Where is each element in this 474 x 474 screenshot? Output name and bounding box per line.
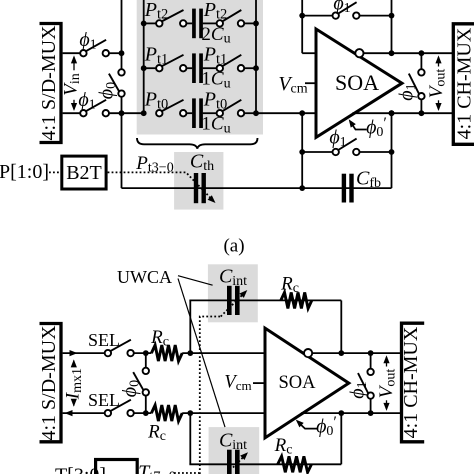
node: output switch top (a) <box>419 50 425 56</box>
svg-text:ϕ0′: ϕ0′ <box>366 115 387 140</box>
switch Pt1 right (a) <box>217 65 223 71</box>
dotted control: P[1:0] to B2T (a) <box>49 171 60 173</box>
svg-text:Rc: Rc <box>147 422 166 445</box>
block: 4:1 S/D-MUX (a) <box>40 24 62 143</box>
node: right rail row Pt2 (a) <box>253 21 259 27</box>
svg-text:ϕ0: ϕ0 <box>119 380 143 397</box>
wire: top input (b) <box>63 352 105 354</box>
svg-text:B2T: B2T <box>66 162 102 184</box>
svg-text:Rc: Rc <box>150 327 169 350</box>
svg-text:4:1 S/D-MUX: 4:1 S/D-MUX <box>38 25 60 141</box>
capacitor 1Cu row Pt1 (a) <box>192 53 196 83</box>
node: top loop left (a) <box>299 13 305 19</box>
switch phi1 top reset (a) <box>333 12 339 18</box>
wire: row 2 stub to capacitor (a) <box>186 22 192 24</box>
current arrow Imx1 bottom (b) <box>65 410 73 416</box>
shaded region: programmable capacitor bank (a) <box>137 0 263 135</box>
node: right rail row Pt0 (a) <box>253 110 259 116</box>
node: bottom feedback tap (b) <box>187 410 193 416</box>
svg-text:Rc: Rc <box>280 274 299 297</box>
svg-text:4:1 CH-MUX: 4:1 CH-MUX <box>453 27 474 139</box>
svg-text:P[1:0]: P[1:0] <box>0 161 49 183</box>
wire: bottom reset loop (a) <box>302 151 332 153</box>
wire: capacitor to right switch row Pt1 (a) <box>203 67 217 69</box>
current arrow Imx1 top (b) <box>70 350 78 356</box>
svg-text:Vout: Vout <box>376 369 399 399</box>
svg-text:ϕ1: ϕ1 <box>333 0 350 16</box>
switch phi0 (a) <box>118 69 124 75</box>
node: summing at Cth wire (a) <box>299 185 305 191</box>
wire: bottom feedback branch (b) <box>189 413 191 464</box>
switch SEL top (b) <box>105 350 111 356</box>
node: output switch bottom (a) <box>419 110 425 116</box>
block: 4:1 CH-MUX (b) <box>402 323 425 442</box>
node: top feedback output (b) <box>338 350 344 356</box>
inverting output bubble (b) <box>304 349 312 357</box>
annotation Vout with arrows (a) <box>435 55 441 63</box>
pointer line UWCA to bottom Cint (b) <box>178 279 225 428</box>
wire: row 1 stub to capacitor (a) <box>186 67 192 69</box>
switch phi1 bottom reset (a) <box>333 149 339 155</box>
wire: SOA top output to CH-MUX (b) <box>312 352 401 354</box>
dotted control: B2T to Cth trim (a) <box>108 172 212 199</box>
wire: bank row Pt1 (a) <box>144 67 156 69</box>
node: right rail row Pt1 (a) <box>253 65 259 71</box>
wire: right feedback vertical bottom (a) <box>391 113 393 188</box>
svg-text:SEL: SEL <box>88 330 120 350</box>
node: top loop right (a) <box>389 13 395 19</box>
op-amp SOA (b) <box>265 328 349 438</box>
dotted trim arrow top Cint (b) <box>221 293 244 316</box>
wire: Vcm stub (a) <box>305 82 316 84</box>
capacitor Cth (a) <box>194 173 198 203</box>
svg-text:ϕ0′: ϕ0′ <box>316 414 337 439</box>
wire: top input to SOA (b) <box>134 352 152 354</box>
node: output switch bottom (b) <box>368 410 374 416</box>
wire: bottom feedback rail with Cth and Cfb (a) <box>121 187 391 189</box>
wire: bottom feedback to output (b) <box>340 413 342 464</box>
svg-text:4:1 S/D-MUX: 4:1 S/D-MUX <box>38 325 60 441</box>
wire: input vertical with phi0 switch (a) <box>121 0 123 69</box>
wire: bank to SOA inverting input (a) <box>256 112 317 114</box>
capacitor Cint top (b) <box>227 286 232 315</box>
switch Pt2 left (a) <box>156 20 162 26</box>
shaded region: top Cint (b) <box>208 264 258 322</box>
resistor Rc feedback bottom (b) <box>278 456 312 472</box>
node: output at reset loop (a) <box>389 149 395 155</box>
svg-text:Vcm: Vcm <box>224 373 251 394</box>
switch SEL bottom (b) <box>105 410 111 416</box>
node: left rail row Pt1 (a) <box>141 65 147 71</box>
node: bottom feedback output (b) <box>338 410 344 416</box>
svg-text:Cfb: Cfb <box>356 168 381 192</box>
wire: capacitor to right switch row Pt0 (a) <box>203 112 217 114</box>
svg-text:ϕ1: ϕ1 <box>78 89 95 113</box>
switch phi1 top input (a) <box>80 50 86 56</box>
wire: SOA bottom output to CH-MUX (a) <box>352 112 453 114</box>
node: phi0 top (b) <box>143 350 149 356</box>
capacitor Cint bottom (b) <box>227 450 232 474</box>
wire: row Pt1 to right rail (a) <box>244 67 256 69</box>
wire: SOA bottom output to CH-MUX (b) <box>301 412 402 414</box>
capacitor Cfb (a) <box>342 174 346 203</box>
node: left rail row Pt0 (a) <box>141 110 147 116</box>
svg-text:Vcm: Vcm <box>278 73 307 97</box>
block T2B (bottom, cut) (b) <box>96 460 138 474</box>
wire: top feedback to output (b) <box>340 300 342 353</box>
node: top output at feedback (a) <box>389 50 395 56</box>
svg-text:SOA: SOA <box>278 373 316 393</box>
svg-text:Pt3−0: Pt3−0 <box>135 153 173 176</box>
dotted control bus from T2B (b) <box>200 317 221 474</box>
wire: left feedback vertical top (a) <box>301 0 303 53</box>
underbrace for capacitor bank (a) <box>137 138 258 149</box>
resistor Rc feedback top (b) <box>281 292 312 308</box>
node: summing node (a) <box>299 110 305 116</box>
block: 4:1 CH-MUX (a) <box>453 24 474 145</box>
node: input top (a) <box>119 50 125 56</box>
wire: SOA top output to CH-MUX (a) <box>364 52 454 54</box>
node: output switch top (b) <box>368 350 374 356</box>
wire: top input from S/D-MUX (a) <box>63 52 81 54</box>
node: left rail row Pt2 (a) <box>141 21 147 27</box>
annotation Imx1 with arrows (b) <box>71 359 77 367</box>
switch phi1 output (b) <box>370 353 372 369</box>
switch Pt0 right (a) <box>217 110 223 116</box>
svg-text:SOA: SOA <box>335 70 379 95</box>
svg-text:4:1 CH-MUX: 4:1 CH-MUX <box>400 326 422 438</box>
svg-text:(a): (a) <box>223 236 244 257</box>
wire: bottom input (b) <box>63 412 105 414</box>
switch phi1 output (a) <box>420 53 422 69</box>
wire: bank right rail (a) <box>255 0 257 113</box>
switch Pt2 right (a) <box>217 20 223 26</box>
shaded region: bottom Cint (b) <box>209 427 260 474</box>
wire: top reset loop (a) <box>302 15 332 17</box>
wire: bank row Pt2 (a) <box>144 22 156 24</box>
svg-text:Tt7−0: Tt7−0 <box>138 462 176 474</box>
wire: right feedback vertical top (a) <box>391 0 393 53</box>
switch Pt1 left (a) <box>156 65 162 71</box>
wire: Vcm stub (b) <box>253 382 265 384</box>
switch phi0 (b) <box>145 353 147 368</box>
shaded region: Cth trim capacitor (a) <box>174 152 223 210</box>
node: summing at reset loop (a) <box>299 149 305 155</box>
wire: row 0 stub to capacitor (a) <box>186 112 192 114</box>
svg-text:ϕ1: ϕ1 <box>329 127 346 151</box>
svg-text:Vout: Vout <box>426 69 449 99</box>
block B2T (a) <box>62 156 106 189</box>
node: input bottom (a) <box>119 110 125 116</box>
wire: row Pt0 to right rail (a) <box>244 112 256 114</box>
dotted trim arrow bottom Cint (b) <box>233 455 245 467</box>
svg-text:ϕ0: ϕ0 <box>96 82 120 99</box>
wire: row Pt2 to right rail (a) <box>244 22 256 24</box>
switch Pt0 left (a) <box>156 110 162 116</box>
svg-text:Rc: Rc <box>274 435 293 458</box>
dotted control near T2B (b) <box>174 472 199 474</box>
node: phi0 bottom (b) <box>143 410 149 416</box>
wire: top feedback branch (b) <box>189 300 191 353</box>
capacitor 1Cu row Pt0 (a) <box>192 98 196 128</box>
wire: bottom input from S/D-MUX (a) <box>63 112 81 114</box>
svg-text:ϕ1: ϕ1 <box>79 29 96 53</box>
block: 4:1 S/D-MUX (b) <box>40 324 62 442</box>
inverting output bubble (a) <box>355 49 363 57</box>
annotation Vout with arrows (b) <box>383 355 389 363</box>
wire: capacitor to right switch row Pt2 (a) <box>203 22 217 24</box>
svg-text:UWCA: UWCA <box>117 267 172 287</box>
resistor Rc input bottom (b) <box>151 405 182 421</box>
wire: bottom input to SOA (b) <box>134 412 152 414</box>
svg-text:Imx1: Imx1 <box>62 368 85 400</box>
node: output bottom (a) <box>389 110 395 116</box>
resistor Rc input top (b) <box>151 345 182 361</box>
svg-text:T[3:0]: T[3:0] <box>55 465 106 474</box>
wire: top input to vertical node (a) <box>109 52 122 54</box>
wire: left feedback vertical bottom (a) <box>301 113 303 188</box>
wire: bottom input to bank row (a) <box>109 112 144 114</box>
op-amp SOA (a) <box>316 29 402 137</box>
svg-text:SEL: SEL <box>88 390 120 410</box>
switch phi1 bottom input (a) <box>80 110 86 116</box>
pointer line UWCA to top Cint (b) <box>178 276 213 286</box>
node: top feedback tap (b) <box>187 350 193 356</box>
capacitor 2Cu row Pt2 (a) <box>192 9 196 39</box>
wire: bank left rail (a) <box>143 0 145 113</box>
node: bottom output at feedback (a) <box>389 110 395 116</box>
annotation Vin with arrows (a) <box>71 55 77 63</box>
